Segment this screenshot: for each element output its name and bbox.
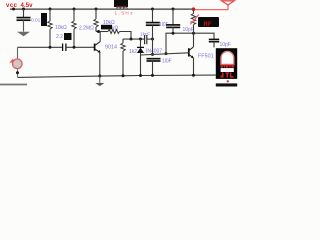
- junction ground Q2: [192, 74, 195, 77]
- capacitor C1 0.01: [17, 9, 31, 32]
- resistor R3 10k collector load vertical: [94, 9, 98, 32]
- wire Q1 collector: [99, 32, 101, 42]
- capacitor C2 10nF vertical from rail: [146, 9, 160, 39]
- junction node 152: [151, 38, 154, 41]
- wire tank node horizontal: [166, 33, 214, 53]
- junction rail C3: [172, 8, 175, 11]
- junction rail R3: [95, 8, 98, 11]
- photo black rect RF box: [198, 17, 219, 27]
- junction red antenna node: [192, 7, 196, 11]
- photo black rect component C: [101, 25, 112, 30]
- junction ground D1: [139, 74, 142, 77]
- inductor L2 coil zigzag: [191, 9, 195, 33]
- svg-text:0.01: 0.01: [31, 18, 41, 24]
- coil red tuning arrow: [190, 15, 199, 25]
- ground symbol under Q1: [95, 76, 104, 86]
- resistor R5 1k2 vertical: [121, 43, 125, 76]
- gray bar bottom left: [0, 84, 27, 86]
- junction rail C2: [151, 8, 154, 11]
- svg-text:1l0F: 1l0F: [162, 59, 172, 65]
- svg-text:10kΩ: 10kΩ: [55, 25, 67, 31]
- inductor humps on rail: [117, 7, 128, 9]
- svg-text:2.2MΩ: 2.2MΩ: [79, 25, 94, 31]
- junction node 131: [130, 38, 133, 41]
- wire coupling node horizontal: [123, 38, 145, 40]
- wire to coupling node: [120, 32, 132, 40]
- junction ground C6: [151, 74, 154, 77]
- svg-text:10pF: 10pF: [220, 42, 231, 48]
- antenna symbol: [222, 1, 235, 5]
- wire top supply rail: [10, 8, 194, 10]
- wire cap to base Q1: [66, 46, 94, 48]
- capacitor C6 10nF to ground: [147, 59, 161, 76]
- junction R1 on mic wire: [49, 46, 52, 49]
- junction collector node: [97, 30, 100, 33]
- svg-text:9014: 9014: [105, 45, 117, 51]
- wire Q1 emitter to ground: [99, 52, 101, 76]
- svg-text:FF501: FF501: [198, 53, 214, 59]
- junction rail R2: [73, 8, 76, 11]
- choke dark red edge: [116, 6, 126, 8]
- photo black rect component B: [64, 33, 72, 40]
- red dot under box: [227, 80, 229, 82]
- diode D1: [137, 39, 144, 76]
- junction tank C3: [172, 32, 175, 35]
- junction mic ground: [16, 71, 19, 74]
- junction rail left: [12, 8, 15, 11]
- capacitor C7 10pF feedback: [209, 39, 219, 47]
- svg-text:10pF: 10pF: [183, 27, 194, 33]
- ground under C1: [17, 32, 30, 36]
- resistor R1 10k vertical: [48, 9, 52, 47]
- transistor Q2 FF501: [189, 47, 194, 58]
- junction ground Q1: [98, 75, 101, 78]
- junction tank coil: [192, 32, 195, 35]
- junction ground R5: [122, 74, 125, 77]
- capacitor C4 series coupling: [63, 44, 66, 52]
- wire node152 down to base line: [152, 39, 154, 54]
- resistor R2 2.2M vertical: [72, 9, 76, 47]
- wire Q2 emitter to ground: [193, 58, 195, 75]
- wire mic signal horizontal: [18, 46, 63, 48]
- transistor Q1 9014: [95, 42, 101, 53]
- capacitor C5 vertical plates: [145, 35, 147, 44]
- svg-text:RF: RF: [204, 22, 212, 28]
- svg-text:1k2: 1k2: [129, 49, 137, 55]
- junction base line 152: [151, 53, 154, 56]
- junction rail C1: [22, 8, 25, 11]
- wire base line to Q2: [141, 53, 189, 55]
- junction R2 on mic wire: [73, 46, 76, 49]
- wire collector node horizontal: [96, 31, 108, 33]
- svg-text:2.2: 2.2: [56, 34, 63, 40]
- red antenna wire: [194, 5, 229, 10]
- wire ground rail: [18, 75, 216, 77]
- photo black rect component A: [41, 13, 47, 26]
- resistor R4 horizontal: [108, 30, 120, 34]
- wire Q2 collector: [193, 33, 195, 47]
- svg-text:vcc: vcc: [6, 3, 18, 9]
- junction base line 166: [165, 52, 168, 55]
- capacitor C3 10pF vertical from rail: [166, 9, 180, 33]
- black strip below box: [216, 83, 237, 86]
- junction rail R1: [49, 8, 52, 11]
- wire corner down to R5: [122, 39, 124, 43]
- photo black box speaker: [216, 48, 237, 79]
- microphone MIC1: [9, 47, 22, 77]
- junction node 140: [139, 38, 142, 41]
- photo black rect choke L1: [114, 0, 128, 7]
